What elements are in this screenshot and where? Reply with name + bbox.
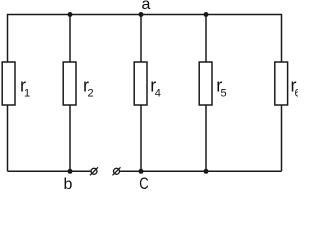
resistor r6 [275, 62, 288, 105]
wire bottom left segment [8, 170, 91, 172]
wire bottom right segment [120, 170, 282, 172]
svg-text:C: C [139, 174, 148, 189]
svg-text:1: 1 [24, 88, 30, 100]
resistor r2 [63, 62, 76, 105]
resistor r5 [199, 62, 212, 105]
junction dot bottom r5 [204, 169, 209, 174]
wire branch r4 top [140, 15, 142, 63]
svg-text:6: 6 [295, 88, 299, 100]
wire top bus a [8, 15, 282, 172]
resistor r6 value label [291, 76, 301, 100]
resistor r1 [2, 62, 15, 105]
wire branch r5 bottom [205, 105, 207, 171]
junction dot top r5 [204, 12, 209, 17]
terminal right of gap [113, 167, 121, 175]
svg-text:2: 2 [88, 88, 94, 100]
resistor r5 value label [216, 76, 226, 100]
resistor r2 value label [83, 76, 94, 100]
svg-text:b: b [64, 176, 73, 189]
junction dot node c [139, 169, 144, 174]
junction dot node a [139, 12, 144, 17]
terminal left of gap [90, 167, 98, 175]
svg-text:a: a [142, 0, 151, 13]
wire branch r2 top [69, 15, 71, 63]
wire branch r4 bottom [140, 105, 142, 171]
wire branch r2 bottom [69, 105, 71, 171]
svg-text:4: 4 [155, 88, 161, 100]
wire branch r5 top [205, 15, 207, 63]
resistor r1 value label [20, 76, 30, 100]
svg-text:5: 5 [221, 88, 227, 100]
resistor r4 [134, 62, 147, 105]
resistor r4 value label [150, 76, 161, 100]
junction dot top r2 [68, 12, 73, 17]
junction dot node b [68, 169, 73, 174]
